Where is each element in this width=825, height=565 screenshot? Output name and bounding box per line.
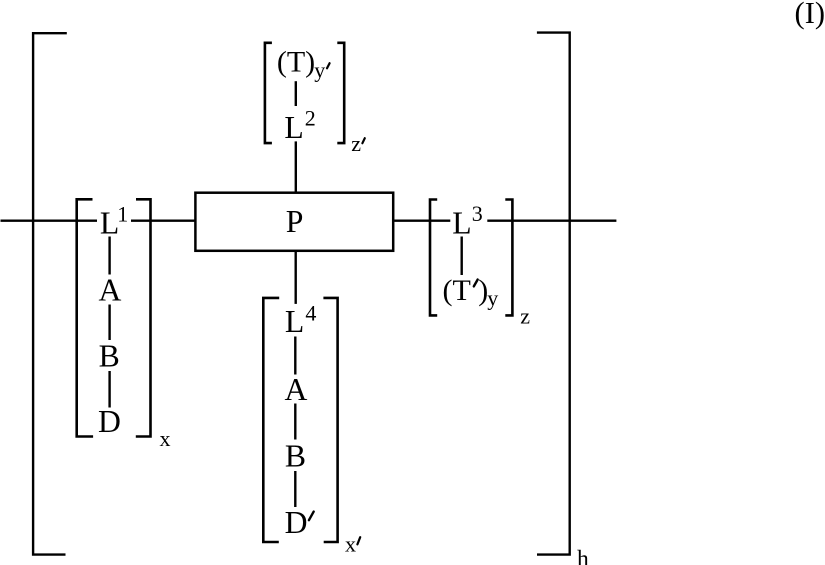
wire main chain right segment bbox=[487, 219, 616, 221]
wire P box to L3 group bbox=[394, 219, 450, 221]
svg-text:3: 3 bbox=[472, 201, 483, 226]
bond A-B (bottom) bbox=[294, 404, 296, 440]
svg-text:P: P bbox=[286, 204, 304, 239]
svg-text:B: B bbox=[285, 438, 306, 473]
svg-text:z: z bbox=[351, 131, 361, 156]
svg-text:x: x bbox=[345, 532, 356, 557]
bond P box to L4 bbox=[295, 252, 297, 304]
right group bracket ] bbox=[505, 200, 512, 316]
svg-text:z: z bbox=[520, 304, 530, 329]
bond T-L2 bbox=[295, 81, 297, 106]
wire main chain left segment bbox=[1, 219, 98, 221]
svg-text:L: L bbox=[452, 205, 471, 240]
outer right bracket bbox=[537, 33, 570, 555]
svg-text:(T: (T bbox=[443, 274, 471, 307]
bottom group bracket [ bbox=[263, 298, 279, 542]
bottom group bracket ] bbox=[323, 298, 337, 542]
svg-text:B: B bbox=[99, 339, 120, 374]
svg-text:A: A bbox=[99, 272, 122, 307]
svg-text:1: 1 bbox=[117, 202, 128, 227]
svg-text:x: x bbox=[160, 426, 171, 451]
svg-text:D: D bbox=[98, 404, 121, 439]
prime of D' bbox=[309, 512, 314, 521]
svg-text:(I): (I) bbox=[795, 0, 825, 30]
svg-text:A: A bbox=[285, 372, 308, 407]
left group bracket ] bbox=[136, 199, 151, 436]
prime of (T') bbox=[474, 280, 478, 287]
bond B-D' bbox=[294, 471, 296, 507]
top group bracket ] bbox=[337, 43, 344, 143]
svg-text:(T): (T) bbox=[277, 46, 315, 79]
P box bbox=[195, 193, 393, 251]
bond L2 to P box bbox=[295, 141, 297, 192]
svg-text:4: 4 bbox=[305, 301, 316, 326]
right group bracket [ bbox=[430, 200, 437, 316]
bond L1-A bbox=[108, 237, 110, 275]
svg-text:y: y bbox=[314, 57, 325, 82]
prime of x' bbox=[357, 537, 360, 544]
svg-text:2: 2 bbox=[305, 106, 316, 131]
bond L4-A bbox=[294, 337, 296, 375]
svg-text:y: y bbox=[487, 285, 498, 310]
prime of z' bbox=[362, 138, 364, 143]
wire L1 to P box bbox=[131, 219, 195, 221]
top group bracket [ bbox=[265, 43, 272, 143]
bond A-B bbox=[108, 305, 110, 341]
bond B-D bbox=[108, 371, 110, 408]
svg-text:h: h bbox=[577, 546, 589, 565]
left group bracket [ bbox=[77, 199, 93, 436]
prime of y' bbox=[327, 63, 330, 68]
svg-text:D: D bbox=[285, 505, 308, 540]
svg-text:L: L bbox=[285, 304, 304, 339]
svg-text:L: L bbox=[100, 205, 119, 240]
outer left bracket bbox=[33, 33, 67, 554]
svg-text:L: L bbox=[284, 110, 303, 145]
bond L3-(T') bbox=[461, 237, 463, 276]
